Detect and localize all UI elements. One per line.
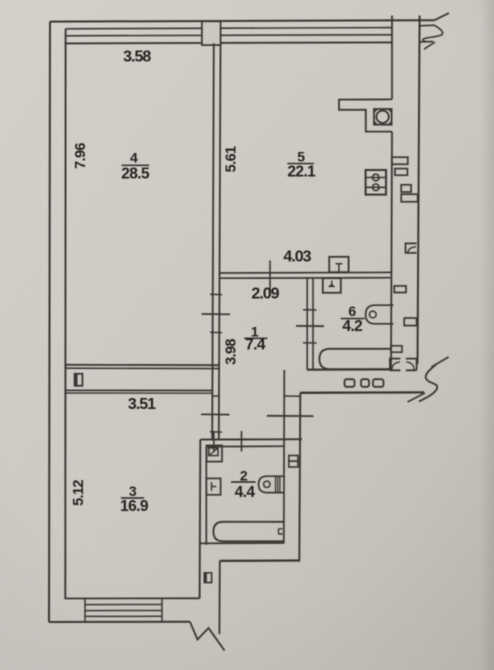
wire: bath2 left wall outer bbox=[199, 440, 202, 599]
wire: top window line 2 bbox=[66, 28, 393, 29]
small box bath2 left bbox=[206, 478, 220, 494]
underline room4 bbox=[122, 164, 150, 166]
wire: lower corridor right line bbox=[218, 561, 220, 634]
door joint room3 lower bbox=[210, 431, 222, 433]
wire: top window line 3 bbox=[66, 35, 393, 36]
wire: hall lower right wall x300 bbox=[299, 393, 300, 561]
svg-text:4.2: 4.2 bbox=[342, 318, 362, 335]
wire: bath2 bottom inner bbox=[200, 542, 284, 544]
bottom window caps bbox=[84, 598, 86, 621]
bracket niche right wall bbox=[406, 243, 417, 253]
top right break squiggle bbox=[420, 25, 443, 42]
dimension tick between 4.03 and 2.09 bbox=[269, 261, 271, 296]
door joint bath6 upper bbox=[303, 309, 317, 311]
svg-text:5.61: 5.61 bbox=[224, 146, 240, 172]
wire: top window outer line bbox=[50, 20, 435, 21]
wire: bath6 bottom wall bbox=[307, 368, 392, 370]
wire: central vertical wall right line bbox=[219, 43, 221, 440]
small tick at corridor bbox=[284, 395, 300, 397]
wire: left wall outer bbox=[49, 22, 50, 622]
vent box with T above wall (room5) bbox=[329, 257, 348, 272]
svg-text:4.03: 4.03 bbox=[283, 248, 311, 265]
toilet room2 bbox=[259, 476, 284, 492]
dimension and room labels bbox=[71, 48, 362, 515]
svg-text:22.1: 22.1 bbox=[287, 163, 316, 180]
svg-text:7.96: 7.96 bbox=[73, 143, 89, 169]
door leaf room3-hall bbox=[201, 413, 230, 415]
wire: central vertical wall left line bbox=[212, 43, 214, 440]
underline room5 bbox=[287, 163, 314, 165]
top right diagonal bbox=[435, 13, 450, 20]
svg-text:16.9: 16.9 bbox=[120, 498, 149, 515]
wire: room 4 bottom wall bbox=[65, 364, 220, 366]
svg-text:4.4: 4.4 bbox=[235, 484, 256, 501]
door joint room4 lower bbox=[210, 331, 222, 333]
stove bbox=[366, 170, 386, 195]
wire: corridor bottom line to break bbox=[300, 391, 424, 394]
vent right of bath6 bbox=[394, 286, 406, 293]
bathtub room6 bbox=[319, 349, 391, 369]
radiator 3 sections bbox=[345, 379, 355, 387]
toilet room6 bbox=[366, 305, 394, 324]
washing machine box bbox=[374, 109, 392, 125]
vent on bath2 right wall (B shape) bbox=[289, 456, 298, 462]
wall joint at room3 top bbox=[212, 395, 220, 397]
wire: hall lower right wall x284 bbox=[283, 370, 286, 544]
svg-text:28.5: 28.5 bbox=[121, 166, 150, 183]
underline room3 bbox=[121, 497, 144, 499]
bottom window lines bbox=[85, 604, 162, 606]
bathtub room2 bbox=[213, 522, 284, 542]
wire: hall/bath6 wall right line bbox=[312, 278, 314, 370]
door leaf hall-bath6 bbox=[296, 325, 324, 327]
svg-text:5: 5 bbox=[297, 148, 305, 164]
door tick bath2 right bbox=[241, 431, 243, 452]
wire: left wall inner bbox=[64, 29, 66, 599]
tub tap rect bbox=[391, 346, 402, 352]
svg-text:5.12: 5.12 bbox=[71, 480, 87, 506]
kitchen niche outline bbox=[339, 99, 392, 131]
door tick bath2 left bbox=[213, 431, 215, 452]
wire: room 3 top wall bbox=[65, 389, 212, 391]
svg-text:2: 2 bbox=[240, 468, 248, 484]
wire: bath2 top wall outer bbox=[200, 438, 302, 440]
wire: room3 bottom inner bbox=[65, 597, 200, 599]
wire: right wall inner lower bbox=[391, 132, 392, 371]
door joint room4 upper bbox=[210, 293, 222, 295]
bottom break zigzag bbox=[190, 622, 225, 651]
svg-text:4: 4 bbox=[130, 150, 138, 166]
pillar between windows bbox=[202, 21, 221, 45]
wire: bath2 left wall inner bbox=[205, 447, 207, 545]
door joint bath6 lower bbox=[303, 342, 317, 344]
wire: bath2 bottom outer bbox=[220, 559, 300, 562]
wire: bottom outer wall bbox=[49, 621, 190, 623]
svg-text:3: 3 bbox=[129, 483, 137, 499]
right wall vents (kitchen) bbox=[392, 157, 408, 164]
vent in lower corridor wall bbox=[204, 573, 211, 583]
svg-text:2.09: 2.09 bbox=[251, 285, 279, 302]
wire: hall/bath6 wall left line bbox=[306, 278, 308, 370]
wire: top window inner line bbox=[66, 42, 393, 43]
wire: right wall inner upper bbox=[391, 16, 393, 100]
underline room2 bbox=[231, 481, 256, 483]
svg-text:3.58: 3.58 bbox=[123, 48, 151, 65]
bottom right break squiggle bbox=[431, 357, 448, 367]
svg-text:7.4: 7.4 bbox=[245, 337, 266, 354]
vent box with T below wall (room6) bbox=[323, 278, 341, 293]
svg-text:6: 6 bbox=[348, 303, 356, 319]
underline room6 bbox=[341, 318, 365, 320]
left wall vent between rooms 4 and 3 bbox=[75, 374, 83, 386]
door leaf room4-hall bbox=[202, 313, 231, 315]
wire: right wall outer bbox=[418, 16, 420, 365]
underline room1 bbox=[244, 337, 267, 339]
entrance door leaf bbox=[267, 415, 314, 417]
wire: bath2 top wall inner bbox=[206, 445, 284, 447]
fixtures bbox=[75, 109, 418, 583]
svg-text:3.98: 3.98 bbox=[224, 339, 240, 365]
wire: corridor / room6 top wall upper line bbox=[220, 271, 393, 274]
corner sink bath2 bbox=[207, 445, 223, 461]
svg-text:3.51: 3.51 bbox=[128, 396, 156, 413]
brackets below tub bbox=[390, 359, 401, 371]
wire: corridor / room6 top wall lower line bbox=[220, 277, 393, 280]
